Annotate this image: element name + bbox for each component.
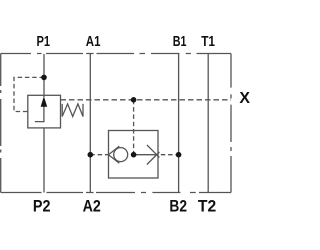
svg-text:P2: P2 [33, 198, 51, 216]
svg-text:B1: B1 [173, 33, 187, 50]
svg-text:T1: T1 [201, 33, 215, 50]
svg-text:A2: A2 [83, 198, 101, 216]
svg-text:T2: T2 [198, 198, 216, 216]
svg-text:P1: P1 [37, 33, 51, 50]
svg-text:A1: A1 [86, 33, 101, 50]
svg-text:X: X [239, 90, 250, 107]
svg-text:B2: B2 [169, 198, 187, 216]
